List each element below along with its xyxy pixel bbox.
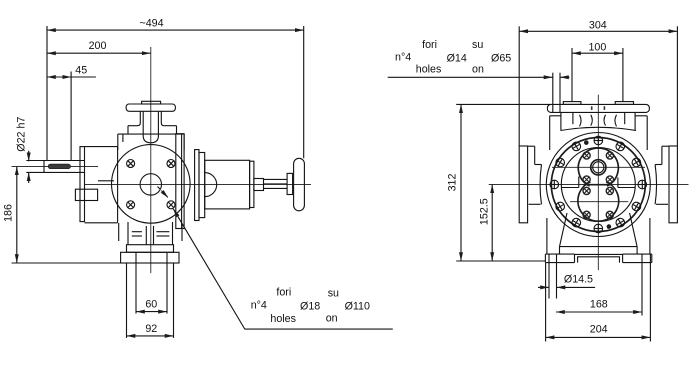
svg-text:60: 60	[145, 299, 157, 311]
neck	[138, 111, 165, 143]
screw at -90deg	[594, 136, 603, 145]
bolt bottom-left	[127, 201, 135, 209]
extension line left (shaft end)	[46, 26, 48, 160]
svg-text:on: on	[326, 313, 338, 325]
svg-text:n°4: n°4	[251, 300, 267, 312]
cover circle	[561, 148, 635, 222]
leg left	[547, 213, 567, 254]
svg-text:su: su	[328, 288, 339, 300]
dashed leader arrow to bolt	[158, 187, 169, 198]
dot bottom	[607, 224, 612, 229]
dimension 200	[47, 40, 151, 53]
upper casing block	[118, 134, 184, 150]
screw at 210deg	[556, 158, 565, 167]
svg-text:Ø110: Ø110	[345, 301, 370, 313]
extension 204 right	[649, 294, 651, 342]
casing rear flange strip	[176, 134, 184, 229]
chamber bolt	[606, 152, 613, 159]
svg-text:152.5: 152.5	[479, 198, 491, 225]
dimension 304	[519, 20, 677, 32]
extension 204 left	[545, 263, 547, 342]
extension line 304 left	[518, 26, 520, 146]
dimension 312	[447, 104, 462, 261]
support legs	[119, 222, 182, 245]
svg-text:~494: ~494	[139, 18, 163, 30]
svg-text:Ø14: Ø14	[447, 53, 467, 65]
flange center ticks	[591, 106, 605, 110]
screw at 240deg	[572, 142, 581, 151]
dimension 60	[136, 299, 167, 312]
stem lines	[264, 179, 288, 188]
svg-text:holes: holes	[270, 313, 296, 325]
base recess	[575, 254, 623, 262]
shaft axis centerline	[12, 165, 99, 167]
dimension 186	[3, 166, 17, 263]
right port lobe arc	[655, 165, 656, 205]
extension line 304 right	[676, 26, 678, 146]
foot pad	[127, 245, 174, 253]
casing outer circle	[546, 133, 650, 237]
dimension 100	[572, 41, 623, 53]
foot slot left	[549, 254, 557, 298]
top lobe arc	[561, 127, 637, 130]
neck front	[561, 112, 637, 130]
leg right	[630, 213, 650, 254]
svg-text:304: 304	[589, 20, 607, 32]
drive shaft	[26, 161, 84, 173]
casing shoulder left	[550, 116, 561, 150]
rib marks	[132, 232, 170, 236]
svg-text:100: 100	[588, 41, 606, 53]
vertical centerline of pump	[150, 47, 152, 273]
waist band	[584, 184, 613, 186]
side flange right	[669, 146, 677, 223]
svg-text:Ø18: Ø18	[300, 301, 320, 313]
svg-text:92: 92	[145, 323, 157, 335]
svg-text:n°4: n°4	[395, 52, 411, 64]
extension line 100 left	[571, 48, 573, 102]
extension line 312 top	[456, 103, 551, 105]
chamber bolt	[583, 187, 590, 194]
dimension 168	[556, 298, 642, 312]
hole Ø14 extension lines	[553, 73, 560, 112]
dimension 92	[127, 323, 174, 336]
extension line 45 right	[70, 72, 72, 161]
end plate	[250, 161, 254, 207]
base outline	[545, 254, 651, 263]
svg-text:186: 186	[3, 204, 15, 222]
hub circle	[140, 174, 161, 195]
upper shaft rings	[591, 160, 606, 175]
svg-text:holes: holes	[416, 64, 442, 76]
bearing bracket plate	[80, 147, 85, 222]
leader line to hole note	[173, 209, 392, 329]
dot top	[584, 140, 589, 145]
screw at 150deg	[556, 202, 565, 211]
chamber bolt	[583, 176, 590, 183]
vertical centerline	[597, 95, 599, 271]
leader line Ø14	[388, 76, 570, 78]
svg-text:45: 45	[75, 64, 87, 76]
screw at 180deg	[550, 180, 559, 189]
chamber bolt	[583, 152, 590, 159]
flange face tab left	[563, 102, 581, 105]
bolt top-right	[167, 160, 175, 168]
svg-text:204: 204	[590, 324, 608, 336]
dimension 45	[47, 64, 96, 77]
screw at 60deg	[616, 218, 625, 227]
parting slot left	[562, 177, 579, 188]
lower axis centerline	[85, 183, 312, 185]
dimension 152.5	[479, 184, 493, 261]
casing shoulder right	[635, 116, 647, 150]
svg-text:fori: fori	[422, 39, 437, 51]
screw at 30deg	[632, 202, 641, 211]
base block	[121, 252, 179, 263]
chamber bolt	[606, 187, 613, 194]
bolt bottom-right	[167, 201, 175, 209]
foot top right	[623, 253, 652, 255]
casing circle	[112, 145, 191, 224]
discharge flange (side)	[126, 104, 175, 111]
chamber bolt	[606, 176, 613, 183]
svg-text:200: 200	[89, 40, 107, 52]
collar right	[655, 146, 669, 204]
side flange left	[519, 146, 527, 223]
bearing cylinder	[205, 160, 250, 209]
bearing housing	[85, 147, 118, 223]
bonnet block	[128, 126, 177, 134]
top flange bar	[547, 104, 649, 112]
lower gear chamber	[578, 182, 619, 221]
left port lobe arc	[540, 165, 541, 205]
dimension Ø22 arrows	[28, 151, 30, 183]
screw at -30deg	[632, 158, 641, 167]
packing nut	[254, 179, 264, 191]
extension line right (handwheel)	[303, 26, 305, 158]
main axis centerline	[489, 183, 689, 185]
upper axis centerline	[552, 166, 645, 168]
shaft keyway	[48, 164, 70, 169]
extension line base bottom left	[12, 262, 122, 264]
extension lines 92	[127, 263, 174, 338]
screws on bolt circle r44	[550, 136, 647, 233]
screw at 90deg	[594, 224, 603, 233]
screw at 0deg	[638, 180, 647, 189]
hole note text left view	[251, 287, 370, 326]
extension line 100 right	[622, 48, 624, 102]
foot slot right	[642, 254, 650, 315]
bearing bracket lower block	[75, 189, 97, 200]
chamber bolt	[583, 211, 590, 218]
gland flange strip 2	[199, 153, 205, 218]
svg-text:Ø14.5: Ø14.5	[564, 274, 593, 286]
extension line base bottom	[456, 260, 545, 262]
svg-text:fori: fori	[276, 287, 291, 299]
bolt top-left	[127, 160, 135, 168]
chamber bolt	[606, 211, 613, 218]
extension lines 60	[136, 253, 167, 314]
flange circle	[551, 138, 645, 232]
foot top left	[545, 253, 574, 255]
parting slot right	[618, 178, 635, 188]
svg-text:Ø22 h7: Ø22 h7	[16, 117, 28, 152]
lower axis centerline	[570, 201, 628, 203]
svg-text:168: 168	[590, 298, 608, 310]
gland flange strip 1	[195, 150, 199, 221]
dome arc	[205, 173, 217, 197]
screw at -60deg	[616, 142, 625, 151]
handwheel rim	[294, 158, 305, 211]
hole note text front view	[395, 39, 511, 76]
svg-text:312: 312	[447, 174, 459, 192]
chamber bolts	[583, 152, 614, 219]
base top between legs	[560, 246, 638, 248]
dimension ~494	[47, 18, 304, 31]
dimension Ø14.5	[538, 274, 595, 288]
svg-text:Ø65: Ø65	[491, 53, 511, 65]
upper gear chamber	[578, 148, 618, 186]
flange face tab right	[615, 102, 633, 105]
dimension 204	[546, 324, 651, 338]
svg-text:on: on	[472, 64, 484, 76]
handwheel hub	[287, 173, 293, 194]
screw at 120deg	[572, 218, 581, 227]
svg-text:su: su	[472, 39, 483, 51]
collar left	[528, 146, 542, 204]
flange raised face tab	[142, 101, 161, 104]
